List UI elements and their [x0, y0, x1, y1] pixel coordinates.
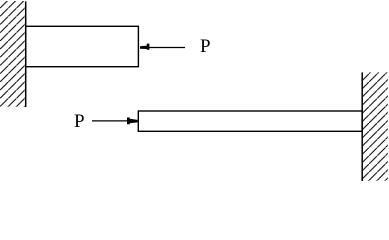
- right wall face line: [361, 72, 363, 181]
- upper force arrowhead (points left at bar end): [140, 44, 149, 50]
- lower force arrow line: [92, 120, 128, 122]
- lower bar: [138, 111, 362, 131]
- svg-text:P: P: [200, 36, 211, 57]
- left wall hatching: [0, 1, 26, 107]
- svg-text:P: P: [74, 111, 85, 132]
- left wall face line: [25, 2, 27, 108]
- lower force arrowhead (points right into bar): [127, 118, 138, 125]
- upper bar: [26, 26, 139, 66]
- upper force arrow line: [149, 47, 185, 49]
- right wall hatching: [363, 72, 388, 181]
